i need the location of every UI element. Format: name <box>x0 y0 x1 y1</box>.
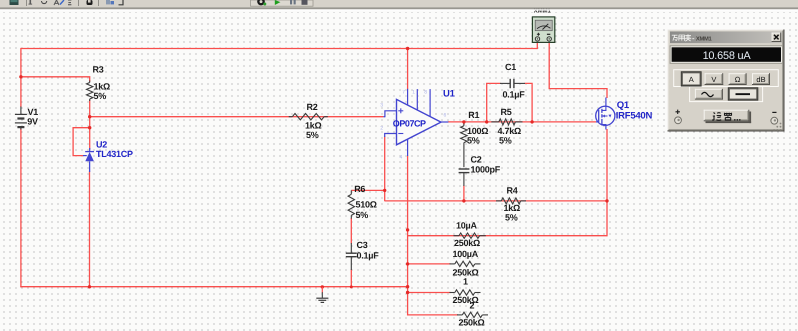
svg-text:Ω: Ω <box>735 75 741 84</box>
resistor R5 <box>491 121 499 123</box>
wire range line 100uA <box>408 263 451 265</box>
svg-text:IRF540N: IRF540N <box>616 110 653 121</box>
wire R3 branch <box>21 77 90 82</box>
svg-text:XMM1: XMM1 <box>696 37 713 43</box>
node U2 cathode/ref <box>88 126 91 129</box>
wire range line 10uA <box>408 235 608 237</box>
svg-text:5%: 5% <box>499 136 512 146</box>
svg-text:V1: V1 <box>28 107 39 117</box>
resistor 2 250k <box>457 314 462 316</box>
button sine <box>695 89 723 100</box>
svg-text:10µA: 10µA <box>456 221 477 231</box>
wire R6 link <box>351 189 385 191</box>
terminal plus <box>676 110 680 114</box>
svg-text:R1: R1 <box>468 110 479 120</box>
svg-text:1: 1 <box>463 276 468 286</box>
wire battery bottom to rail <box>20 129 22 288</box>
svg-text:5%: 5% <box>306 130 319 140</box>
node bus/rail <box>406 285 409 288</box>
node bus/100uA <box>406 262 409 265</box>
wire top rail V1+ to XMM1 + <box>21 48 537 50</box>
svg-text:OP07CP: OP07CP <box>393 118 426 128</box>
node R3/R2 <box>88 115 91 118</box>
resize grip <box>773 123 781 131</box>
wire C3 bottom to rail <box>350 270 352 288</box>
wire C1 feedback loop <box>487 83 501 122</box>
node rail/V+ <box>406 47 409 50</box>
svg-text:R5: R5 <box>501 107 512 117</box>
node ground/rail <box>321 285 324 288</box>
panel display <box>670 45 783 64</box>
resistor R6 <box>350 190 352 194</box>
node output/R1 <box>462 120 465 123</box>
wire op-amp output to Q1 gate <box>448 121 596 123</box>
svg-text:R6: R6 <box>354 184 365 194</box>
wire V- bus <box>408 156 458 315</box>
svg-text:R3: R3 <box>93 65 104 75</box>
svg-text:250kΩ: 250kΩ <box>454 238 480 248</box>
svg-text:0.1µF: 0.1µF <box>503 90 526 100</box>
wire op-amp V+ from rail <box>407 49 409 90</box>
wire R3 bottom to TL431 cathode <box>89 100 91 149</box>
wire R1 top stub <box>463 122 465 125</box>
R1/C2 series lead <box>463 143 465 168</box>
node C2/R4 net <box>462 199 465 202</box>
node U2 anode/rail <box>88 285 91 288</box>
wire R2 net to op-amp +in <box>90 116 384 118</box>
svg-text:9V: 9V <box>27 117 38 127</box>
node R6/-in <box>383 189 386 192</box>
ground <box>321 287 323 293</box>
wire R4 net <box>385 200 607 202</box>
op-amp offset pins 1,8 <box>416 89 418 110</box>
shunt regulator U2 TL431CP <box>85 151 94 153</box>
Q1 drain stub <box>605 98 607 107</box>
node R4/source <box>605 199 608 202</box>
wire C2 bottom <box>463 186 465 202</box>
svg-text:250kΩ: 250kΩ <box>459 317 485 327</box>
title glyphs wan-yong-biao <box>672 34 691 41</box>
svg-text:C1: C1 <box>505 62 516 72</box>
svg-text:A: A <box>689 75 694 84</box>
svg-text:5%: 5% <box>356 210 369 220</box>
wire XMM1 + stub <box>536 42 538 49</box>
terminal minus <box>772 111 776 113</box>
resistor 1 250k <box>450 292 455 294</box>
toolbar icon remnants <box>10 0 19 5</box>
wire Q1 source down <box>606 129 608 236</box>
svg-text:U1: U1 <box>443 89 456 100</box>
resistor R2 <box>289 116 293 118</box>
button dB <box>752 73 770 85</box>
resistor R1 <box>463 124 465 126</box>
wire range line 1 <box>408 292 451 294</box>
svg-text:dB: dB <box>756 75 765 84</box>
panel button group frame <box>674 70 779 87</box>
op-amp V- pin <box>407 139 409 156</box>
capacitor C2 <box>459 168 470 170</box>
node C1 left <box>485 120 488 123</box>
button V <box>705 73 724 85</box>
svg-text:2: 2 <box>470 300 475 310</box>
op-amp V+ pin <box>407 89 409 106</box>
svg-text:1kΩ: 1kΩ <box>94 82 111 92</box>
svg-text:U2: U2 <box>96 139 107 149</box>
resistor 100uA 250k <box>450 263 455 265</box>
node bus/line1 <box>406 291 409 294</box>
capacitor C3 <box>350 243 352 253</box>
button A (selected) <box>682 73 700 85</box>
resistor 10uA 250k <box>454 235 460 237</box>
svg-text:R2: R2 <box>307 102 318 112</box>
transistor Q1 IRF540N <box>596 106 615 125</box>
battery V1 <box>20 107 22 115</box>
resistor R3 <box>89 81 91 83</box>
wire R6 bottom to C3 <box>350 218 352 244</box>
svg-text:0.1µF: 0.1µF <box>357 251 380 261</box>
svg-text:250kΩ: 250kΩ <box>453 295 479 305</box>
multimeter panel window <box>668 30 785 132</box>
op-amp output pin <box>441 121 448 123</box>
op-amp -in pin <box>385 134 397 138</box>
wire XMM1 - to Q1 drain <box>549 42 607 98</box>
op-amp +/- glyphs <box>398 110 403 112</box>
op-amp +in pin <box>383 116 385 118</box>
instrument XMM1 icon <box>532 17 554 43</box>
wire -in column <box>384 137 386 202</box>
svg-text:C3: C3 <box>357 240 368 250</box>
panel close button <box>772 33 782 42</box>
svg-text:100µA: 100µA <box>453 249 479 259</box>
svg-text:1kΩ: 1kΩ <box>305 121 322 131</box>
button shezhi (settings) <box>704 110 750 122</box>
svg-text:V: V <box>711 75 716 84</box>
svg-text:1000pF: 1000pF <box>471 165 501 175</box>
svg-text:R4: R4 <box>507 186 518 196</box>
toolbar run controls <box>251 0 314 6</box>
toolbar strip <box>0 0 798 8</box>
svg-text:C2: C2 <box>471 155 482 165</box>
svg-text:TL431CP: TL431CP <box>96 149 133 159</box>
resistor R4 <box>496 200 501 202</box>
capacitor C1 <box>500 82 510 84</box>
wire U2 ref loop <box>73 128 90 156</box>
button DC (selected) <box>729 89 757 99</box>
wire U2 anode down <box>89 172 91 288</box>
svg-text:1kΩ: 1kΩ <box>504 203 521 213</box>
node battery/R3 <box>19 75 22 78</box>
Q1 source stub <box>605 125 607 129</box>
svg-text:5%: 5% <box>505 213 518 223</box>
node C1 right <box>530 120 533 123</box>
wire bottom rail <box>20 286 407 288</box>
svg-text:510Ω: 510Ω <box>356 200 377 210</box>
op-amp U1 OP07CP <box>397 99 442 144</box>
node bus stub <box>406 228 409 231</box>
wire left drop battery top <box>20 48 22 107</box>
node C3/rail <box>350 285 353 288</box>
svg-text:5%: 5% <box>467 136 480 146</box>
svg-text:5%: 5% <box>94 91 107 101</box>
svg-text:10.658 uA: 10.658 uA <box>703 50 752 62</box>
shezhi glyphs <box>712 113 731 121</box>
button Ohm <box>729 73 747 85</box>
